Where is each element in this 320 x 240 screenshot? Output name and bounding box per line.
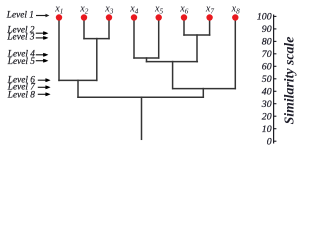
svg-text:90: 90 <box>262 24 272 35</box>
svg-text:70: 70 <box>262 49 272 60</box>
wire leaf x3 drop <box>108 18 110 39</box>
wire level-7 merge bar <box>173 88 236 90</box>
arrow level 2 <box>36 32 49 35</box>
svg-text:60: 60 <box>262 61 272 72</box>
wire node x2x3 drop <box>96 39 98 81</box>
wire level-4 merge bar x4-x5 <box>134 57 159 59</box>
svg-text:20: 20 <box>262 111 272 122</box>
axis tick 0 <box>274 140 277 142</box>
arrow level 2 <box>36 31 48 35</box>
leaf dot x8 <box>232 14 238 20</box>
axis tick 100 <box>274 15 277 17</box>
axis tick 30 <box>274 103 277 105</box>
svg-text:x7: x7 <box>205 4 214 16</box>
leaf dot x7 <box>206 14 212 20</box>
svg-text:Level 3: Level 3 <box>6 32 34 42</box>
arrow level 8 <box>38 92 51 96</box>
svg-text:x4: x4 <box>129 4 138 16</box>
leaf dot x4 <box>131 14 137 20</box>
svg-text:100: 100 <box>257 12 272 23</box>
leaf dot x3 <box>106 14 112 20</box>
wire node x4..x7 drop <box>172 62 174 89</box>
svg-text:0: 0 <box>267 136 272 147</box>
axis tick 20 <box>274 115 277 117</box>
wire trunk <box>141 97 143 139</box>
wire level-5 merge bar <box>147 61 198 63</box>
arrow level 5 <box>36 59 49 62</box>
wire node x6x7 drop <box>196 35 198 62</box>
wire level-6 merge bar x1-(x2x3) <box>59 79 97 81</box>
leaf dot x6 <box>181 14 187 20</box>
arrow level 4 <box>36 53 48 57</box>
arrow level 8 <box>38 93 51 96</box>
axis tick 10 <box>274 128 277 130</box>
arrow level 1 <box>36 14 49 17</box>
similarity axis line <box>273 15 275 144</box>
wire leaf x8 drop <box>234 18 236 89</box>
svg-text:Level 1: Level 1 <box>6 11 34 21</box>
leaf dot x2 <box>81 14 87 20</box>
leaf dot x5 <box>156 14 162 20</box>
wire node x4x5 drop <box>146 58 148 62</box>
wire leaf x5 drop <box>158 18 160 58</box>
svg-text:80: 80 <box>262 37 272 48</box>
axis tick 90 <box>274 28 277 30</box>
wire level-8 merge bar <box>78 96 203 98</box>
arrow level 7 <box>38 85 51 89</box>
wire leaf x6 drop <box>183 18 185 35</box>
svg-text:40: 40 <box>262 86 272 97</box>
svg-text:Similarity scale: Similarity scale <box>281 37 296 125</box>
wire leaf x7 drop <box>209 18 211 35</box>
arrow level 5 <box>36 59 48 63</box>
arrow level 3 <box>36 36 49 39</box>
wire level-2 merge bar x6-x7 <box>184 34 210 36</box>
axis tick 50 <box>274 78 277 80</box>
wire leaf x4 drop <box>133 18 135 58</box>
svg-text:x3: x3 <box>104 4 113 16</box>
svg-text:10: 10 <box>262 124 272 135</box>
svg-text:30: 30 <box>261 99 272 110</box>
wire node x1x2x3 drop <box>77 80 79 97</box>
svg-text:50: 50 <box>262 74 272 85</box>
axis tick 60 <box>274 65 277 67</box>
arrow level 3 <box>36 36 48 40</box>
axis tick 80 <box>274 40 277 42</box>
svg-text:x2: x2 <box>79 4 88 16</box>
arrow level 6 <box>38 78 51 82</box>
wire leaf x2 drop <box>83 18 85 39</box>
svg-text:x5: x5 <box>154 4 163 16</box>
svg-text:Level 5: Level 5 <box>7 57 35 67</box>
svg-text:Level 8: Level 8 <box>7 90 35 100</box>
arrow level 6 <box>38 79 51 82</box>
arrow level 7 <box>38 86 51 89</box>
svg-text:x6: x6 <box>179 4 188 16</box>
wire level-3 merge bar x2-x3 <box>84 38 109 40</box>
axis tick 70 <box>274 53 277 55</box>
wire leaf x1 drop <box>58 18 60 81</box>
axis tick 40 <box>274 90 277 92</box>
arrow level 4 <box>36 53 49 56</box>
leaf dot x1 <box>56 14 62 20</box>
svg-text:x8: x8 <box>231 4 240 16</box>
svg-text:x1: x1 <box>54 4 63 16</box>
wire node x4..x8 drop <box>202 89 204 98</box>
